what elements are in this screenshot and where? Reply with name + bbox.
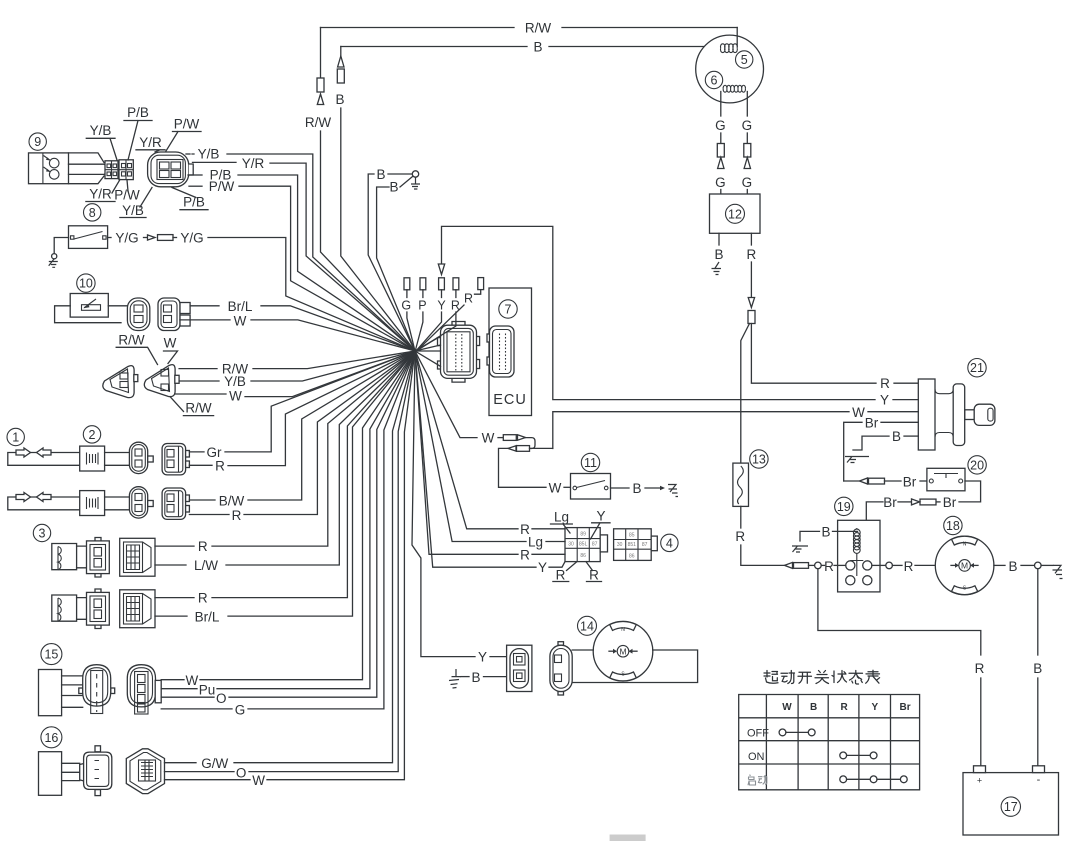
- circled 17: [1001, 797, 1020, 816]
- wire W long (to switch): [553, 412, 849, 449]
- circled 11: [581, 453, 599, 471]
- circled 13: [750, 450, 768, 468]
- ground (B splice): [411, 177, 420, 189]
- fuse R: [453, 278, 459, 290]
- svg-text:R/W: R/W: [118, 332, 145, 347]
- svg-text:Y/R: Y/R: [242, 156, 265, 171]
- wire Y to 4: [415, 351, 536, 567]
- connector 2 oval: [129, 442, 147, 473]
- ECU connector (ECU side): [487, 334, 491, 342]
- wire Br from switch: [881, 421, 918, 423]
- svg-text:G: G: [742, 175, 753, 190]
- svg-text:G/W: G/W: [201, 756, 228, 771]
- wire R2 to 4: [415, 351, 518, 554]
- svg-text:Y/G: Y/G: [180, 231, 203, 246]
- table contacts START: [840, 776, 847, 783]
- svg-text:B: B: [714, 247, 723, 262]
- starter relay 19 box: [838, 520, 880, 592]
- svg-text:O: O: [216, 691, 227, 706]
- svg-text:Y/G: Y/G: [115, 231, 138, 246]
- wire Y to fan motor 14: [412, 351, 475, 657]
- thermo sensor 10: [77, 274, 95, 292]
- ground (14 B): [449, 669, 461, 688]
- svg-text:Y/B: Y/B: [224, 374, 246, 389]
- meter lamps 9: [29, 133, 46, 150]
- svg-text:Y: Y: [538, 560, 547, 575]
- wire Y/B diode to splice: [179, 380, 219, 382]
- wire 8 ground: [54, 238, 68, 254]
- connector bullet (Br-20): [860, 478, 868, 484]
- svg-text:R: R: [556, 568, 566, 583]
- svg-text:Br: Br: [865, 415, 879, 430]
- wire L/W to splice: [155, 564, 186, 566]
- diode unit 20 box: [927, 468, 965, 491]
- bulb unit 2: [83, 426, 100, 443]
- connector 2 mate: [162, 444, 186, 475]
- svg-text:R: R: [747, 247, 757, 262]
- svg-text:87: 87: [592, 542, 598, 548]
- fuse G: [404, 278, 410, 290]
- svg-text:B: B: [335, 92, 344, 107]
- table 起动开关状态表 title (hand-drawn glyphs): [764, 670, 880, 684]
- svg-text:Br: Br: [903, 474, 917, 489]
- svg-text:Br/L: Br/L: [228, 299, 253, 314]
- relay contacts: [846, 561, 855, 570]
- circled 20: [968, 456, 986, 474]
- connector bullet (R link): [748, 298, 754, 308]
- svg-text:87: 87: [642, 542, 648, 548]
- circled 4: [661, 534, 678, 551]
- svg-text:+: +: [977, 776, 982, 786]
- svg-text:5: 5: [741, 53, 748, 67]
- svg-text:20: 20: [970, 458, 984, 472]
- svg-text:R: R: [975, 661, 985, 676]
- connector 10 mate: [158, 298, 180, 331]
- svg-text:W: W: [852, 405, 865, 420]
- connector bullet (R-19): [785, 562, 793, 568]
- wire R/W top horizontal: [321, 27, 515, 29]
- svg-text:6: 6: [711, 74, 718, 88]
- svg-text:2: 2: [89, 428, 96, 442]
- connector bullet (W pair upper): [503, 435, 516, 441]
- glyph 状: [832, 671, 847, 683]
- svg-text:86: 86: [580, 553, 586, 559]
- svg-text:W: W: [229, 389, 242, 404]
- svg-text:R: R: [520, 547, 530, 562]
- svg-text:O: O: [236, 765, 247, 780]
- svg-text:19: 19: [837, 500, 851, 514]
- svg-text:M: M: [961, 561, 968, 571]
- connector bullet (B link): [338, 56, 344, 67]
- svg-text:R/W: R/W: [185, 400, 212, 415]
- svg-text:R: R: [880, 376, 890, 391]
- circled 12: [726, 204, 745, 223]
- svg-text:17: 17: [1004, 800, 1018, 814]
- wire Lg to 4: [415, 351, 526, 542]
- svg-text:N: N: [963, 542, 967, 548]
- glyph 动: [781, 671, 795, 684]
- svg-text:85: 85: [629, 533, 635, 539]
- svg-text:8: 8: [89, 206, 96, 220]
- magneto 5/6 circle: [696, 35, 764, 103]
- svg-text:G: G: [742, 118, 753, 133]
- svg-text:B: B: [1008, 559, 1017, 574]
- wire P/W to splice: [189, 185, 202, 187]
- svg-text:7: 7: [505, 303, 512, 317]
- wire B below 12: [718, 233, 720, 245]
- wire B 11 ground: [611, 487, 630, 489]
- ground (12 B): [712, 262, 722, 275]
- ignition coil 3b: [52, 595, 77, 621]
- svg-text:W: W: [252, 773, 265, 788]
- svg-text:ECU: ECU: [493, 392, 527, 408]
- svg-text:G: G: [401, 299, 411, 313]
- svg-text:10: 10: [79, 277, 93, 291]
- svg-text:P/W: P/W: [209, 179, 235, 194]
- svg-text:Lg: Lg: [554, 510, 569, 525]
- coil 5: [720, 44, 737, 48]
- wire R to 4: [415, 351, 518, 529]
- table contacts OFF: [779, 729, 786, 736]
- wire G/W to splice: [165, 762, 197, 764]
- ECU box 7: [489, 288, 532, 416]
- connector bullet (R/W fuse link): [317, 78, 324, 92]
- label R/W bottom diode: [170, 397, 184, 412]
- fuse Y with link: [438, 264, 444, 275]
- svg-text:W: W: [482, 431, 495, 446]
- wire R/W diode to splice: [179, 368, 217, 370]
- circled 7: [499, 300, 517, 318]
- wire R 3b to splice: [155, 597, 194, 599]
- glyph 启动 (grey): [748, 775, 767, 786]
- node R junction: [815, 562, 822, 569]
- svg-text:L/W: L/W: [194, 558, 218, 573]
- svg-text:-: -: [1037, 774, 1041, 786]
- wire Y long (fuse to switch): [442, 226, 876, 399]
- svg-text:B: B: [821, 524, 830, 539]
- wire Br/L to splice: [190, 305, 219, 307]
- svg-text:P: P: [418, 299, 426, 313]
- svg-text:15: 15: [44, 648, 58, 662]
- radiator fan motor 14: [593, 621, 653, 681]
- svg-text:M: M: [619, 646, 626, 656]
- bulb unit 2b: [80, 491, 105, 516]
- resistor 13: [733, 463, 749, 506]
- connector 16 mate: [126, 749, 164, 794]
- wire W ECU out: [415, 351, 477, 438]
- wire R below 12: [750, 233, 752, 245]
- wire relay to motor: [872, 564, 886, 566]
- clutch switch 11 box: [571, 474, 611, 500]
- wire -Y/B to splice: [186, 153, 190, 155]
- svg-text:R: R: [824, 559, 834, 574]
- wire R 3a to splice: [155, 545, 194, 547]
- svg-text:R: R: [215, 459, 225, 474]
- gear position switch 16: [41, 727, 62, 748]
- svg-text:Br: Br: [883, 495, 897, 510]
- svg-text:R: R: [904, 559, 914, 574]
- wire Gr to splice: [189, 451, 204, 453]
- key: [965, 410, 974, 420]
- ground (switch B): [845, 457, 869, 463]
- svg-text:B: B: [1033, 661, 1042, 676]
- svg-text:R: R: [232, 508, 242, 523]
- fuse (G right): [744, 144, 751, 158]
- svg-text:B: B: [892, 429, 901, 444]
- relay coil: [853, 529, 860, 553]
- diode block A: [103, 366, 134, 398]
- glyph 态: [849, 671, 863, 685]
- harness connector (to ECU): [452, 322, 465, 326]
- ground (relay B): [792, 546, 808, 552]
- svg-text:Br: Br: [900, 702, 911, 713]
- svg-text:R/W: R/W: [525, 21, 552, 36]
- svg-text:R: R: [589, 568, 599, 583]
- wire 10 to connector: [108, 305, 127, 307]
- wire 10 lower loop: [55, 306, 121, 323]
- svg-text:G: G: [715, 175, 726, 190]
- fuse P: [420, 278, 426, 290]
- glyph 开: [798, 672, 812, 683]
- svg-text:86: 86: [629, 554, 635, 560]
- svg-text:Lg: Lg: [528, 535, 543, 550]
- svg-text:85L: 85L: [579, 542, 588, 548]
- wire Y/G: [108, 237, 111, 239]
- svg-text:Y: Y: [880, 393, 889, 408]
- connector 9 inner pair: [105, 161, 118, 179]
- svg-text:G: G: [715, 118, 726, 133]
- wire G 15 to splice: [161, 708, 232, 710]
- circled 18: [944, 516, 962, 534]
- wire 14 motor leads: [572, 649, 593, 651]
- switch state table grid: [739, 695, 920, 790]
- svg-text:12: 12: [728, 207, 742, 221]
- scrollbar mark: [610, 835, 646, 841]
- wire G right: [746, 92, 748, 117]
- svg-text:W: W: [549, 480, 562, 495]
- wire Pu to splice: [161, 688, 197, 690]
- svg-text:Pu: Pu: [199, 683, 216, 698]
- wire R/W to splice: [321, 131, 416, 351]
- wire B to battery: [1037, 569, 1039, 655]
- wire 20 to Br bullet: [959, 481, 981, 502]
- svg-text:4: 4: [666, 536, 673, 550]
- connector bullet (Y/G): [148, 235, 156, 240]
- svg-text:21: 21: [970, 361, 984, 375]
- connector 16: [80, 762, 90, 782]
- main switch 21 body: [918, 379, 935, 450]
- ground (8): [49, 259, 58, 268]
- sensor 1b arrows: [8, 497, 80, 510]
- svg-text:G: G: [235, 702, 246, 717]
- wire W to splice: [180, 319, 230, 321]
- svg-text:R: R: [198, 591, 208, 606]
- svg-text:16: 16: [44, 731, 58, 745]
- wire O 15 to splice: [161, 696, 214, 698]
- glyph 起: [764, 671, 778, 684]
- svg-text:B: B: [389, 180, 398, 195]
- ground (11): [668, 485, 678, 497]
- battery 17: [963, 773, 1059, 835]
- svg-text:13: 13: [752, 453, 766, 467]
- connector 10 oval: [127, 298, 149, 331]
- svg-text:B/W: B/W: [219, 493, 245, 508]
- glyph 关: [815, 671, 829, 684]
- wire R to main switch: [751, 324, 876, 384]
- svg-text:ON: ON: [748, 751, 765, 763]
- svg-text:N: N: [621, 627, 625, 633]
- svg-text:B: B: [810, 702, 817, 713]
- diode block B: [144, 365, 175, 397]
- connector bullet (W pair lower): [517, 446, 530, 452]
- svg-text:W: W: [234, 313, 247, 328]
- wire Br/L 3b to splice: [155, 615, 187, 617]
- relay sockets 4: [565, 528, 600, 562]
- svg-text:R/W: R/W: [305, 115, 332, 130]
- table contacts ON: [840, 752, 847, 759]
- wire P/B to splice: [188, 174, 202, 176]
- wire R/W into coil 5: [736, 28, 738, 47]
- svg-text:9: 9: [34, 135, 41, 149]
- svg-text:3: 3: [39, 527, 46, 541]
- wire B motor right: [994, 564, 1005, 566]
- starter motor 18: [935, 536, 994, 595]
- wire R from 13 to relay: [740, 506, 742, 528]
- connector 15 mate: [127, 665, 155, 707]
- svg-text:Y: Y: [596, 509, 605, 524]
- svg-text:Y: Y: [437, 299, 446, 313]
- wire B switch ground: [904, 435, 918, 437]
- svg-text:W: W: [186, 673, 199, 688]
- wire R to splice: [189, 464, 212, 466]
- fuse (G left): [717, 144, 724, 158]
- wire B2 to splice: [377, 187, 415, 351]
- svg-text:851: 851: [628, 542, 637, 548]
- circled 6: [705, 71, 722, 88]
- fan connector (harness): [558, 642, 564, 646]
- coil 6: [723, 85, 745, 88]
- wire R2 to splice: [189, 514, 229, 516]
- svg-text:B: B: [632, 481, 641, 496]
- throttle body 15: [41, 644, 62, 665]
- svg-text:P/W: P/W: [174, 117, 200, 132]
- brake switch 8: [84, 204, 101, 221]
- svg-text:W: W: [782, 702, 792, 713]
- wire Y/R to splice: [193, 161, 237, 163]
- rectifier 12 box: [710, 194, 761, 233]
- svg-text:R: R: [464, 292, 473, 306]
- svg-text:R: R: [735, 529, 745, 544]
- wires 9 to connector: [69, 153, 105, 163]
- wire B top horizontal: [341, 46, 527, 48]
- wire B/W to splice: [189, 499, 215, 501]
- svg-text:89: 89: [580, 532, 586, 538]
- svg-text:OFF: OFF: [747, 728, 769, 740]
- svg-text:Y/R: Y/R: [89, 187, 112, 202]
- connector 15 oval: [79, 688, 83, 694]
- svg-text:R: R: [841, 702, 849, 713]
- circled 14: [578, 616, 597, 635]
- svg-text:14: 14: [580, 619, 594, 633]
- svg-text:Y/R: Y/R: [139, 135, 162, 150]
- wire O 16 to splice: [165, 771, 235, 773]
- svg-text:Y/B: Y/B: [198, 147, 220, 162]
- svg-text:B: B: [533, 40, 542, 55]
- svg-text:R: R: [198, 539, 208, 554]
- svg-text:P/B: P/B: [127, 105, 149, 120]
- svg-text:30: 30: [568, 542, 574, 548]
- ground (motor B): [1053, 565, 1063, 578]
- wire W diode to splice: [175, 393, 226, 395]
- svg-text:Y: Y: [872, 702, 879, 713]
- circled 5: [736, 51, 753, 68]
- connector bullet (Br-19): [936, 501, 940, 503]
- wire R to resistor 13: [741, 324, 750, 464]
- fan connector (14 side): [507, 645, 532, 691]
- svg-text:Y: Y: [478, 650, 487, 665]
- wire Br to diode 20: [844, 480, 859, 482]
- wire W 16 to splice: [165, 779, 251, 781]
- wire R/W left drop: [320, 28, 322, 79]
- wire R to battery: [818, 569, 981, 655]
- connector 2b oval: [129, 487, 147, 518]
- splice to harness connector wires: [415, 336, 441, 366]
- sensor 1: [7, 428, 24, 445]
- fuse R spare: [478, 278, 484, 290]
- svg-text:W: W: [164, 336, 177, 351]
- ignition coil 3: [33, 524, 50, 541]
- wire G left: [720, 92, 722, 117]
- wire B1 to splice: [368, 174, 415, 351]
- svg-text:1: 1: [12, 431, 19, 445]
- wire B to splice: [341, 108, 415, 351]
- connector 2b mate: [162, 488, 186, 519]
- svg-text:B: B: [471, 670, 480, 685]
- glyph 表: [866, 670, 880, 683]
- svg-text:Y/B: Y/B: [90, 123, 112, 138]
- svg-text:P/W: P/W: [114, 188, 140, 203]
- svg-text:Br: Br: [943, 495, 957, 510]
- svg-text:30: 30: [617, 542, 623, 548]
- circled 21: [968, 359, 986, 377]
- svg-text:Br/L: Br/L: [195, 609, 220, 624]
- svg-text:B: B: [376, 167, 385, 182]
- connector 9 oval: [148, 152, 189, 187]
- svg-text:18: 18: [946, 519, 960, 533]
- svg-text:11: 11: [584, 456, 597, 470]
- circled 19: [835, 497, 853, 515]
- wire W 15 to splice: [161, 679, 184, 681]
